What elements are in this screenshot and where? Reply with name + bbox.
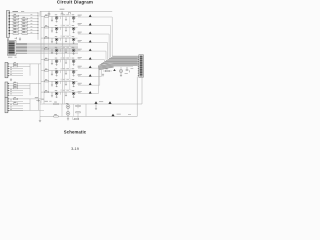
wire top rail (40, 11, 112, 16)
wire grid vertical C (61, 11, 63, 104)
amplifier stage 4 (41, 48, 78, 50)
wire output row 8 with arrow (78, 64, 101, 77)
resistor network row 1 (10, 12, 38, 14)
resistor network row 8 (10, 33, 38, 35)
resistor R20 (69, 12, 71, 15)
ribbon cable bus (16, 43, 78, 54)
wire right vertical to rail2 (136, 77, 138, 117)
wire Q10-Q11 vertical (67, 104, 69, 116)
wire output row 2 with arrow (78, 26, 111, 58)
diode D1 (94, 101, 97, 104)
ground bottom input (39, 120, 41, 122)
label D3 (117, 113, 121, 116)
transistor Q11 (66, 112, 70, 116)
wire grid vertical D (63, 49, 65, 104)
capacitor C9 (126, 67, 130, 73)
stub ground x96 (95, 104, 97, 110)
connector J3 (5, 62, 8, 77)
connector J1 (6, 11, 9, 38)
resistor network row 2 (10, 15, 38, 17)
transistor Q9 (119, 69, 122, 72)
wire output row 7 with arrow (78, 63, 103, 69)
wire mid vertical 86 (85, 104, 87, 116)
diode D4 (113, 69, 116, 71)
label above rail1 (45, 100, 48, 103)
wire output row 1 with arrow (78, 17, 112, 56)
wire J5 out2 (9, 109, 44, 111)
capacitor C0 (15, 37, 17, 39)
label D2 (99, 100, 103, 103)
resistor R42 (76, 105, 80, 106)
resistor R43 (76, 112, 80, 113)
label end rail2 (128, 113, 131, 116)
wire output row 5 with arrow (78, 51, 106, 60)
svg-text:Schematic: Schematic (64, 130, 87, 135)
connector J5 (5, 97, 8, 112)
resistor R41 (54, 116, 58, 117)
capacitor C1 (48, 11, 51, 16)
wire conn bus vertical (38, 64, 40, 110)
wire right vertical to rail1 (141, 77, 143, 104)
ground stub 1 (102, 74, 104, 77)
diode D3 (111, 114, 114, 117)
wire stub below band 2 (120, 67, 122, 70)
transistor Q10 (66, 105, 70, 109)
capacitor C2 (61, 11, 64, 14)
wire mid vertical 74 (73, 104, 75, 116)
wire bottom rail 1 (40, 103, 142, 105)
ground G2 (19, 37, 21, 40)
wire output row 6 with arrow (78, 60, 104, 62)
connector J4 (5, 82, 8, 97)
ground between J3 J4 (10, 78, 12, 81)
connector J2 (7, 41, 16, 56)
connector J6 (139, 55, 144, 77)
label cluster (125, 72, 128, 75)
wire cluster top (100, 66, 133, 68)
diode D2 (108, 101, 111, 104)
label below J2 (8, 56, 12, 59)
resistor network row 5 (10, 24, 38, 26)
resistor network row 4 (10, 21, 38, 23)
resistor R30 (105, 70, 109, 71)
svg-text:3-19: 3-19 (71, 146, 79, 151)
wire output row 9 with arrow (78, 65, 100, 86)
wire bottom rail 2 (40, 115, 137, 117)
resistor network row 3 (10, 18, 38, 20)
wire output row 3 with arrow (78, 34, 109, 58)
wire grid vertical A (40, 11, 42, 103)
amplifier stage 7 (41, 80, 78, 82)
wire bus x38 (37, 13, 39, 40)
svg-text:Circuit Diagram: Circuit Diagram (57, 0, 93, 4)
capacitor C10 (36, 99, 40, 101)
ground below Q11 (67, 116, 69, 120)
wire mid vertical 62 (61, 104, 63, 116)
amplifier stage 8 (41, 91, 78, 93)
wire stub below band 1 (102, 66, 104, 70)
amplifier stage 3 (41, 37, 78, 39)
resistor R44 below rail2 (74, 118, 78, 119)
wire output row 4 with arrow (78, 43, 108, 60)
amplifier stage 5 (41, 59, 78, 61)
resistor network row 6 (10, 27, 38, 29)
amplifier stage 1 (41, 16, 78, 18)
ground below Q9 (120, 73, 122, 77)
resistor network row 7 (10, 30, 38, 32)
wire output row 10 with arrow (78, 66, 98, 94)
wire bottom input (39, 101, 41, 120)
cable bundle shade (98, 63, 114, 70)
amplifier stage 2 (41, 26, 78, 28)
ground below J1 (7, 37, 9, 40)
resistor R40 (54, 103, 58, 104)
amplifier stage 6 (41, 70, 78, 72)
wire grid vertical B (43, 17, 45, 105)
